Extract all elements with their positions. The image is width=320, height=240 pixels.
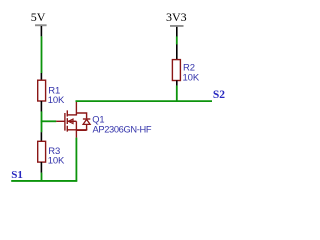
body diode cathode bar xyxy=(83,118,90,120)
pin R2.1 xyxy=(176,44,178,59)
transistor Q1 gate lead xyxy=(56,120,65,122)
body diode triangle xyxy=(83,119,90,124)
svg-text:S2: S2 xyxy=(213,89,225,101)
power port 3V3 bar xyxy=(170,25,184,27)
wire R2 to S2 rail xyxy=(176,86,178,102)
wire R1 to R3 / gate node xyxy=(41,111,43,132)
wire R3 to S1 rail xyxy=(41,173,43,182)
svg-text:S1: S1 xyxy=(11,169,23,181)
wire gate branch xyxy=(41,120,57,122)
transistor Q1 source pin xyxy=(75,130,77,138)
body diode bottom jog xyxy=(76,124,86,130)
svg-text:10K: 10K xyxy=(48,95,65,106)
resistor R2 body xyxy=(172,60,180,81)
svg-text:Q1: Q1 xyxy=(92,114,104,124)
svg-text:10K: 10K xyxy=(183,72,200,83)
transistor Q1 body arrow xyxy=(68,119,73,123)
wire source to S1 rail xyxy=(75,138,77,182)
svg-text:10K: 10K xyxy=(48,155,65,166)
wire 3V3 to R2 xyxy=(176,36,178,44)
svg-text:5V: 5V xyxy=(31,10,46,24)
power port 3V3 pin xyxy=(176,27,178,37)
wire S1 rail xyxy=(11,180,77,182)
pin R3.1 xyxy=(40,132,42,141)
transistor Q1 channel bar segments xyxy=(66,110,68,131)
transistor Q1 drain stub xyxy=(67,114,77,116)
pin R2.2 xyxy=(176,80,178,85)
pin R1.2 xyxy=(40,101,42,112)
pin R3.2 xyxy=(40,162,42,173)
transistor Q1 body line xyxy=(67,120,76,122)
transistor Q1 drain pin xyxy=(75,102,77,116)
resistor R1 body xyxy=(38,80,46,101)
svg-text:3V3: 3V3 xyxy=(166,10,187,24)
power port 5V pin xyxy=(40,26,42,36)
wire 5V to R1 xyxy=(41,36,43,73)
body diode top jog xyxy=(76,113,86,118)
wire S2 rail xyxy=(76,100,213,102)
pin R1.1 xyxy=(40,73,42,80)
transistor Q1 source stub xyxy=(67,129,88,131)
resistor R3 body xyxy=(38,141,46,162)
transistor Q1 body drop xyxy=(75,121,77,130)
svg-text:AP2306GN-HF: AP2306GN-HF xyxy=(93,124,152,134)
transistor Q1 gate bar xyxy=(64,113,66,131)
power port 5V bar xyxy=(35,24,47,26)
